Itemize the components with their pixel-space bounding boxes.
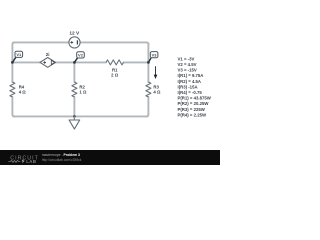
voltage source V5 (12 V) [69,37,80,48]
resistor R3 [146,82,151,97]
svg-text:2 Ω: 2 Ω [111,73,119,78]
svg-text:P(R1) = 43.875W: P(R1) = 43.875W [178,96,212,101]
svg-text:I(R1) = 9.75A: I(R1) = 9.75A [178,73,204,78]
junction node V2 [73,61,76,64]
svg-text:P(R4) = 2.25W: P(R4) = 2.25W [178,112,207,117]
svg-text:V1 = -3V: V1 = -3V [178,56,195,61]
svg-text:V3: V3 [152,52,158,57]
svg-text:4 Ω: 4 Ω [153,89,161,94]
node label V3 [148,52,158,63]
svg-text:I(R4) = -0.75: I(R4) = -0.75 [178,90,203,95]
svg-text:V2: V2 [78,53,84,58]
wire R2 to bottom rail [73,97,75,116]
ground [69,116,80,129]
CircuitLab logo wordmark [8,155,39,164]
wire R3 to bottom rail [146,97,148,116]
svg-text:P(R3) = 225W: P(R3) = 225W [178,107,206,112]
svg-text:http://circuitlab.com/c359ck: http://circuitlab.com/c359ck [42,158,82,162]
svg-text:4 Ω: 4 Ω [19,89,27,94]
wire node V1 down to R4 [11,62,13,82]
wire node V2 to R1 left lead [74,61,106,63]
svg-text:V1: V1 [16,52,22,57]
current annotation arrow (i through R3) [154,66,158,79]
resistor R2 [72,82,77,97]
wire R1 right lead to node V3 [124,61,149,63]
svg-text:LAB: LAB [26,159,36,164]
wire node V1 to dependent source [12,61,40,63]
resistor R4 [10,82,15,97]
node A: simulation results annotation [178,56,212,117]
svg-text:2i: 2i [46,52,50,57]
svg-text:mastermope - Problem 3: mastermope - Problem 3 [42,153,80,157]
wire dependent source to node V2 [56,61,75,63]
svg-text:I(R2) = 4.5A: I(R2) = 4.5A [178,79,202,84]
wire R4 to bottom rail [12,97,14,116]
wire top rail left of source [13,41,69,43]
svg-text:1 Ω: 1 Ω [79,89,87,94]
svg-text:V3 = -15V: V3 = -15V [178,68,197,73]
wire bottom rail [13,115,147,117]
junction bottom rail / ground [73,115,76,118]
footer watermark bar [0,150,220,165]
node label V1 [12,51,22,62]
svg-text:12 V: 12 V [69,31,80,37]
wire top rail right of source [80,42,148,44]
svg-text:V2 = 4.5V: V2 = 4.5V [178,62,197,67]
svg-text:P(R2) = 20.25W: P(R2) = 20.25W [178,101,210,106]
svg-text:I(R3) -15A: I(R3) -15A [178,84,198,89]
wire top-right vertical (top rail down to node V3) [147,43,149,62]
junction node V3 [147,61,150,64]
wire node V3 down to R3 [147,62,149,82]
wire node V2 down to R2 [73,62,75,82]
resistor R1 [106,60,124,65]
dependent source (CCVS) 2i [40,58,56,68]
wire top-left vertical (node V1 up to top rail) [12,42,14,62]
junction node V1 [11,61,14,64]
node label V2 [74,52,84,63]
